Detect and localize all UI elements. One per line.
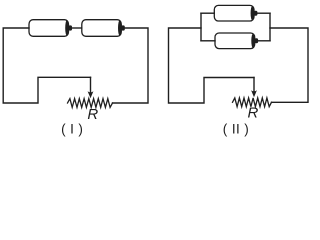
wire: bottom branch lead-in (circuit II): [201, 40, 215, 42]
rheostat R (circuit II) zigzag element: [233, 98, 272, 107]
svg-text:R: R: [247, 105, 258, 122]
wire: circuit I series link between cells: [72, 27, 82, 29]
cell B1 (circuit I, left dry cell): [29, 20, 72, 37]
wire: circuit II left side and step to wiper: [169, 28, 255, 103]
wire: bottom branch lead-out (circuit II): [258, 40, 270, 42]
cell B4 (circuit II, bottom dry cell): [215, 33, 258, 49]
wiper arrow of rheostat R (circuit II): [251, 78, 257, 98]
rheostat R (circuit I) zigzag element: [68, 99, 113, 108]
svg-text:( II ): ( II ): [223, 121, 249, 136]
wire: top branch lead-out (circuit II): [257, 12, 270, 14]
junction bar: circuit II right parallel node: [269, 13, 271, 41]
svg-text:R: R: [87, 106, 98, 123]
wire: circuit II output to right side down to rheostat: [270, 28, 308, 102]
cell B2 (circuit I, right dry cell): [82, 20, 125, 37]
junction bar: circuit II left parallel node: [200, 13, 202, 41]
wire: top branch lead-in (circuit II): [201, 12, 214, 14]
wire: circuit I top-left segment: [3, 28, 90, 103]
wiper arrow of rheostat R (circuit I): [88, 77, 94, 98]
wire: circuit I right side from cell 2 down to rheostat: [113, 28, 149, 103]
svg-text:( I ): ( I ): [61, 121, 83, 136]
cell B3 (circuit II, top dry cell): [214, 5, 257, 21]
